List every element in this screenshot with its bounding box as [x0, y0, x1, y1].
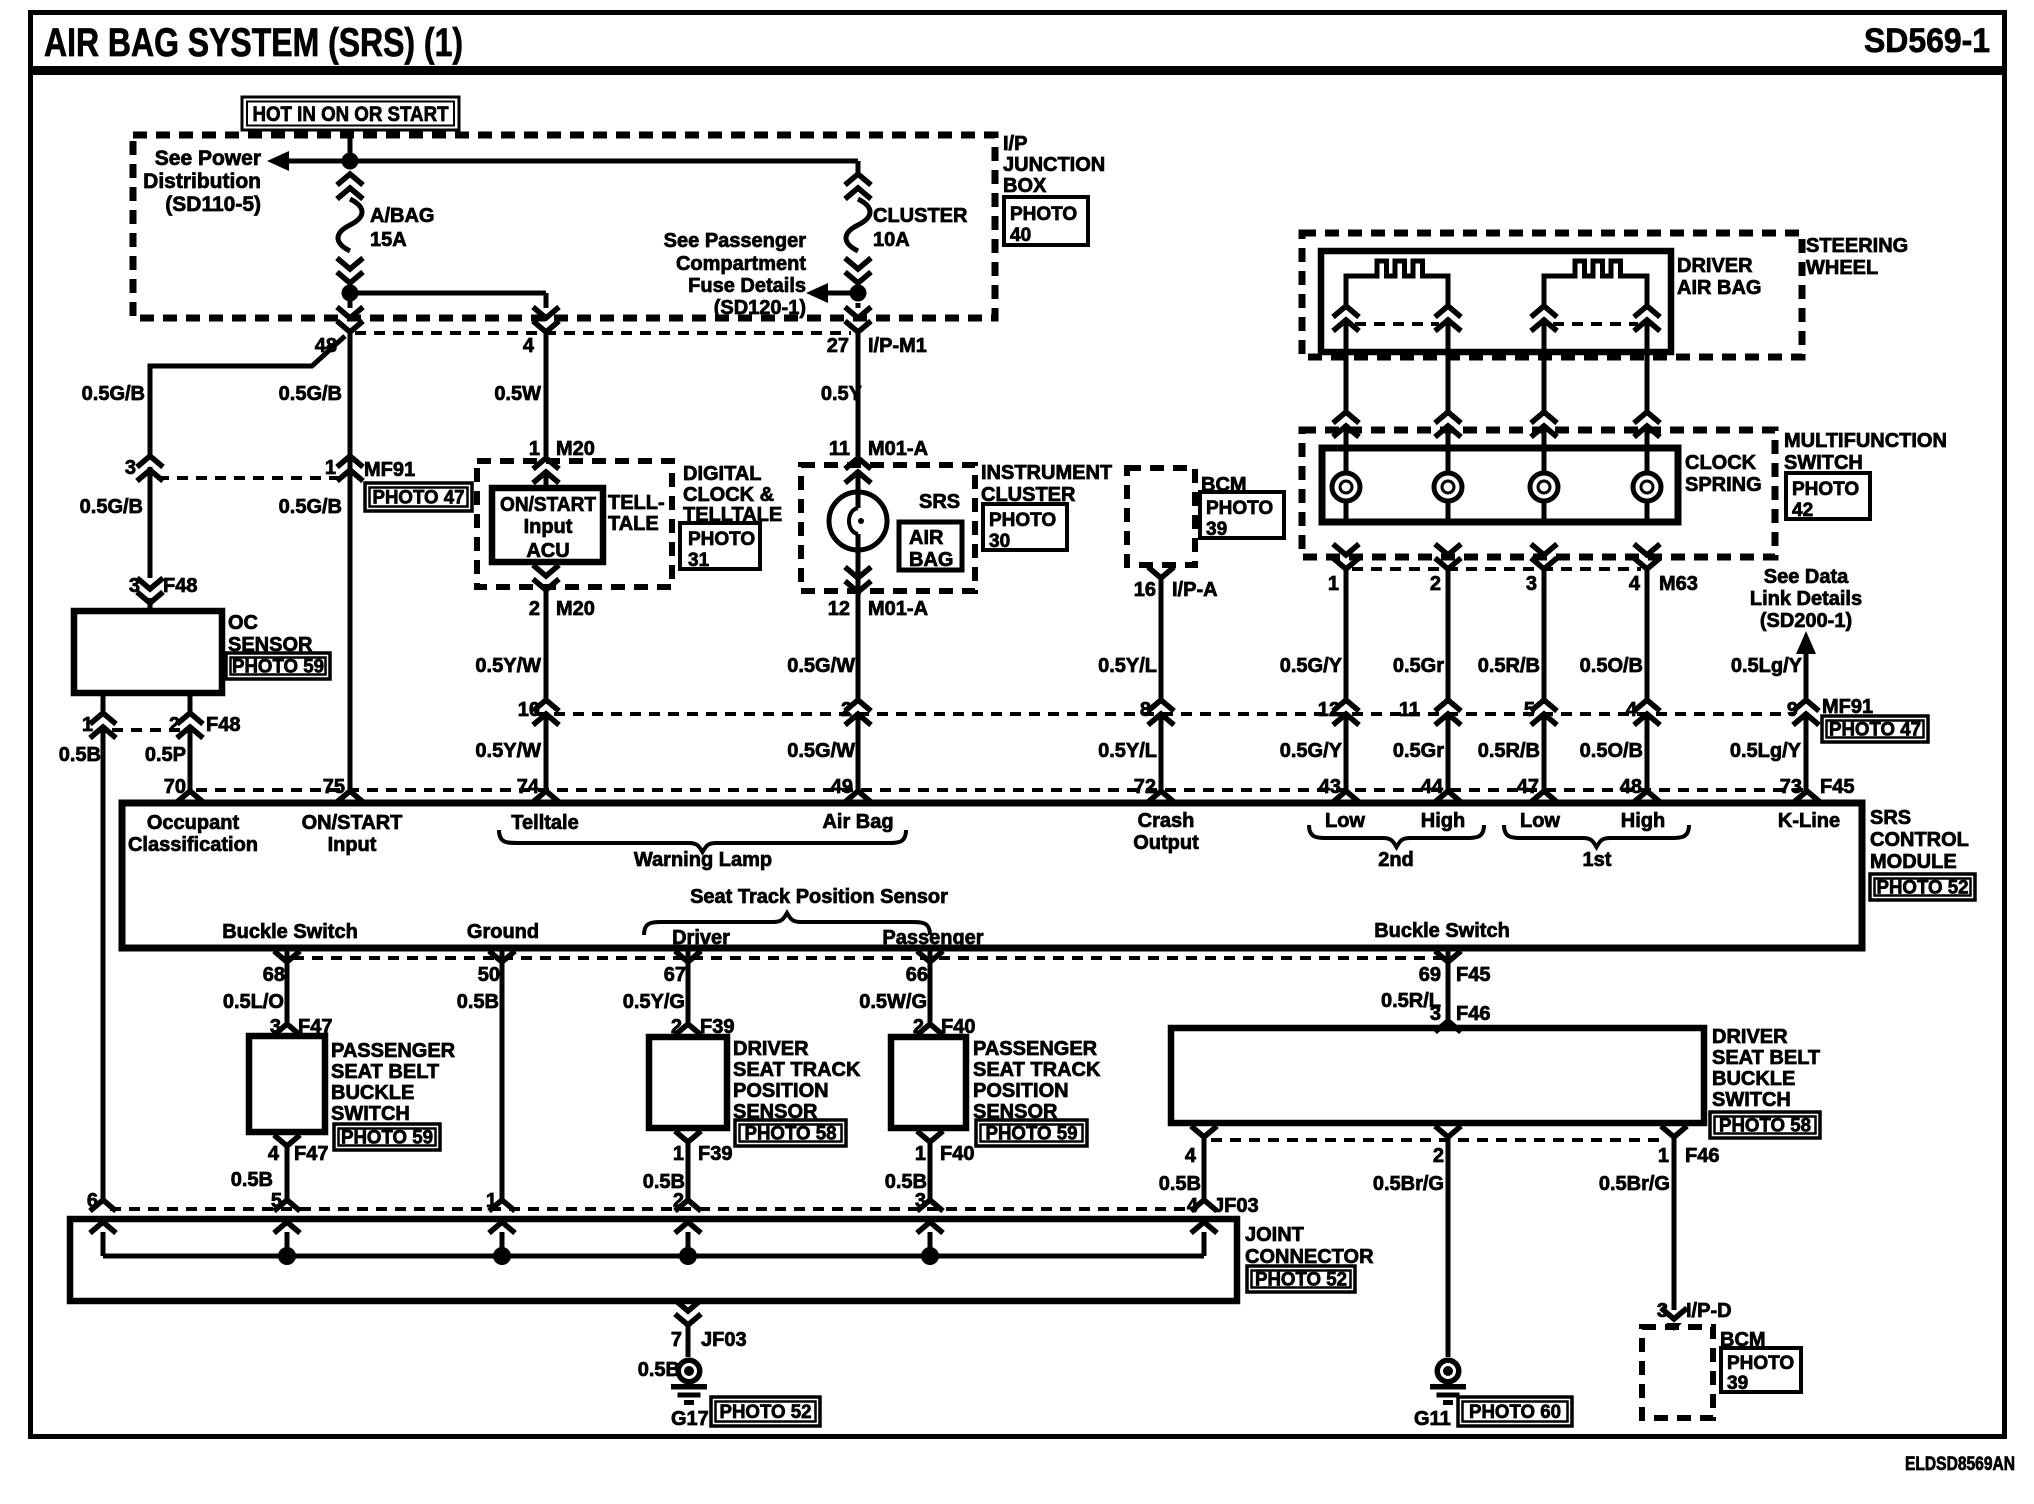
connector 4 F47: [268, 1135, 329, 1165]
svg-text:WHEEL: WHEEL: [1806, 257, 1878, 279]
photo 40 box: [1004, 197, 1088, 246]
wire 0.5G/B to pin75: [279, 496, 342, 518]
connector 2 F39: [671, 1016, 735, 1038]
svg-text:4: 4: [268, 1143, 280, 1165]
svg-text:0.5Lg/Y: 0.5Lg/Y: [1731, 655, 1803, 677]
svg-text:68: 68: [263, 964, 285, 986]
connector 5: [1524, 699, 1557, 725]
svg-text:Link Details: Link Details: [1750, 588, 1862, 610]
svg-text:9: 9: [1787, 699, 1798, 721]
svg-text:A/BAG: A/BAG: [370, 205, 434, 227]
connector 3 F48: [129, 575, 198, 611]
hot in on or start tag: [242, 97, 459, 161]
photo 30 box: [983, 504, 1067, 552]
wire 0.5Y/W lower: [475, 712, 546, 790]
svg-text:MODULE: MODULE: [1870, 851, 1957, 873]
wire 0.5P from OC pin2: [145, 727, 190, 790]
wire 0.5Br/G to BCM: [1599, 1137, 1674, 1310]
svg-text:CLOCK: CLOCK: [1685, 452, 1757, 474]
svg-text:3: 3: [1430, 1003, 1441, 1025]
svg-text:PHOTO 58: PHOTO 58: [745, 1124, 837, 1145]
joint junction dot 2: [679, 1247, 697, 1265]
svg-text:48: 48: [1620, 776, 1642, 798]
svg-text:1: 1: [529, 438, 540, 460]
svg-text:12: 12: [828, 598, 850, 620]
joint pin 6: [87, 1190, 116, 1256]
svg-text:M63: M63: [1659, 573, 1698, 595]
joint pin 3: [915, 1190, 943, 1256]
connector pin 4 buckle: [1185, 1126, 1217, 1167]
digital clock telltale box (dashed): [477, 461, 672, 587]
connector M63: [1328, 544, 1698, 595]
svg-text:PHOTO 52: PHOTO 52: [1255, 1270, 1347, 1291]
svg-text:30: 30: [989, 531, 1010, 552]
svg-text:AIR BAG SYSTEM (SRS) (1): AIR BAG SYSTEM (SRS) (1): [44, 21, 463, 65]
clock spring coil 2: [1434, 424, 1462, 522]
passenger seat belt buckle switch box: [249, 1036, 325, 1132]
connector 3 I/P-D: [1657, 1300, 1732, 1331]
svg-text:3: 3: [915, 1190, 926, 1212]
module label driver: [672, 927, 730, 949]
svg-text:F46: F46: [1685, 1145, 1719, 1167]
see power distribution arrow: [143, 147, 289, 216]
joint junction dot 1: [493, 1247, 511, 1265]
svg-text:M20: M20: [556, 598, 595, 620]
svg-text:ACU: ACU: [526, 540, 569, 562]
svg-text:STEERING: STEERING: [1806, 235, 1908, 257]
wire 0.5W vertical: [494, 332, 546, 456]
svg-text:11: 11: [829, 438, 850, 460]
module label telltale: [511, 812, 578, 834]
svg-text:1: 1: [82, 714, 93, 736]
label CLOCK SPRING: [1685, 452, 1762, 496]
svg-text:0.5G/B: 0.5G/B: [82, 383, 145, 405]
connector 12 M01-A: [828, 567, 928, 620]
svg-text:PHOTO 59: PHOTO 59: [341, 1128, 433, 1149]
label OC SENSOR: [228, 612, 313, 656]
junction node below A/BAG fuse: [342, 285, 359, 302]
wire power rail: [288, 161, 858, 174]
connector 1 M20: [529, 438, 595, 488]
svg-text:4: 4: [1629, 573, 1641, 595]
svg-text:ON/START: ON/START: [500, 494, 596, 516]
svg-text:4: 4: [1185, 1145, 1197, 1167]
svg-text:0.5G/B: 0.5G/B: [279, 496, 342, 518]
svg-text:Fuse Details: Fuse Details: [688, 275, 806, 297]
svg-text:0.5Y/W: 0.5Y/W: [475, 740, 541, 762]
svg-text:1: 1: [1658, 1145, 1669, 1167]
svg-text:Air Bag: Air Bag: [822, 811, 893, 833]
air bag squib 2: [1531, 261, 1660, 331]
svg-text:OC: OC: [228, 612, 258, 634]
svg-text:3: 3: [129, 575, 140, 597]
svg-text:0.5Lg/Y: 0.5Lg/Y: [1730, 740, 1802, 762]
clock spring box: [1322, 448, 1678, 522]
svg-text:INSTRUMENT: INSTRUMENT: [981, 462, 1112, 484]
wire 0.5R/B lower: [1478, 712, 1544, 790]
svg-text:K-Line: K-Line: [1778, 810, 1840, 832]
clock spring coil 3: [1530, 424, 1558, 522]
svg-text:0.5Br/G: 0.5Br/G: [1599, 1173, 1670, 1195]
air bag box: [899, 522, 962, 571]
svg-text:AIR: AIR: [909, 527, 944, 549]
ground G11: [1414, 1358, 1466, 1431]
svg-text:DRIVER: DRIVER: [1712, 1026, 1788, 1048]
svg-text:F39: F39: [698, 1143, 732, 1165]
label driver seat belt buckle switch: [1712, 1026, 1820, 1111]
svg-text:10A: 10A: [873, 229, 910, 251]
svg-text:0.5Gr: 0.5Gr: [1393, 740, 1444, 762]
wire 0.5B passenger sensor: [885, 1142, 930, 1200]
svg-text:0.5O/B: 0.5O/B: [1580, 655, 1643, 677]
joint pin 1: [486, 1190, 515, 1256]
photo 42 box: [1786, 473, 1870, 521]
module pin 68: [263, 951, 300, 986]
label passenger seat belt buckle switch: [331, 1040, 456, 1125]
svg-text:Input: Input: [328, 834, 377, 856]
svg-text:31: 31: [688, 550, 710, 571]
photo 47 box right: [1822, 716, 1928, 742]
wire 0.5Y vertical: [821, 332, 863, 456]
svg-text:F48: F48: [163, 575, 197, 597]
svg-text:49: 49: [831, 776, 853, 798]
svg-text:1st: 1st: [1583, 849, 1612, 871]
photo 52 box joint: [1247, 1266, 1355, 1292]
photo 52 box module: [1870, 874, 1975, 900]
svg-text:2: 2: [673, 1190, 684, 1212]
OC sensor box: [74, 611, 222, 693]
svg-text:0.5Gr: 0.5Gr: [1393, 655, 1444, 677]
svg-text:M20: M20: [556, 438, 595, 460]
svg-text:Compartment: Compartment: [676, 253, 806, 275]
svg-text:F40: F40: [940, 1143, 974, 1165]
wire 0.5Lg/Y lower: [1730, 712, 1806, 790]
svg-text:Crash: Crash: [1138, 810, 1195, 832]
svg-text:SEAT TRACK: SEAT TRACK: [973, 1059, 1101, 1081]
svg-text:PASSENGER: PASSENGER: [331, 1040, 456, 1062]
svg-text:SD569-1: SD569-1: [1864, 22, 1990, 60]
label STEERING WHEEL: [1806, 235, 1908, 279]
svg-text:0.5B: 0.5B: [231, 1169, 273, 1191]
connector pin 2 buckle: [1433, 1126, 1461, 1167]
wire 0.5G/W lower: [787, 712, 858, 790]
svg-text:0.5G/W: 0.5G/W: [787, 655, 855, 677]
connector 11 M01-A: [829, 438, 928, 508]
connector 10: [518, 699, 559, 725]
multifunction switch box (dashed): [1302, 430, 1775, 557]
dashed line buckle pins: [1211, 1138, 1667, 1142]
module label passenger: [882, 927, 983, 949]
svg-text:2nd: 2nd: [1378, 849, 1414, 871]
svg-text:0.5B: 0.5B: [638, 1359, 680, 1381]
I/P junction box (dashed): [133, 135, 995, 333]
svg-text:F45: F45: [1820, 776, 1854, 798]
svg-text:0.5G/B: 0.5G/B: [80, 496, 143, 518]
connector 3 F46: [1430, 1003, 1491, 1032]
page code SD569-1: [1864, 22, 1990, 60]
svg-text:12: 12: [1318, 699, 1340, 721]
junction node below CLUSTER fuse: [850, 285, 867, 302]
svg-text:Low: Low: [1520, 810, 1560, 832]
module pin 72: [1134, 776, 1174, 802]
see data link details arrow: [1750, 566, 1862, 700]
warning lamp brace: [499, 830, 906, 871]
joint pin 2: [673, 1190, 701, 1256]
joint pin 4: [1191, 1200, 1217, 1256]
svg-text:See Power: See Power: [155, 147, 261, 170]
label SRS CONTROL MODULE: [1870, 807, 1969, 873]
svg-text:69: 69: [1419, 964, 1441, 986]
module pin 69 F45: [1419, 951, 1491, 986]
wire 0.5G/B label left: [82, 383, 145, 405]
svg-text:PHOTO: PHOTO: [1206, 498, 1273, 519]
svg-text:I/P: I/P: [1003, 133, 1027, 155]
svg-text:0.5B: 0.5B: [59, 744, 101, 766]
svg-text:Buckle Switch: Buckle Switch: [222, 921, 358, 943]
see passenger fuse details arrow: [664, 230, 858, 319]
svg-text:PHOTO 60: PHOTO 60: [1469, 1402, 1561, 1423]
svg-text:SWITCH: SWITCH: [1784, 452, 1863, 474]
wire 0.5Y/L upper: [1098, 578, 1161, 700]
joint connector box: [70, 1219, 1237, 1301]
svg-text:27: 27: [827, 335, 849, 357]
svg-text:Seat Track Position Sensor: Seat Track Position Sensor: [690, 886, 948, 908]
connector 1 MF91: [325, 456, 415, 481]
svg-text:1: 1: [673, 1143, 684, 1165]
svg-text:0.5G/W: 0.5G/W: [787, 740, 855, 762]
label MULTIFUNCTION SWITCH: [1784, 430, 1947, 474]
svg-text:PHOTO: PHOTO: [1727, 1353, 1794, 1374]
svg-text:PASSENGER: PASSENGER: [973, 1038, 1098, 1060]
svg-text:2: 2: [1433, 1145, 1444, 1167]
wire 0.5Lg/Y upper: [1731, 655, 1803, 677]
wire 0.5B driver sensor: [643, 1142, 688, 1200]
svg-text:SWITCH: SWITCH: [331, 1103, 410, 1125]
wire 0.5R/L: [1381, 950, 1448, 1020]
svg-text:74: 74: [517, 776, 540, 798]
label DIGITAL CLOCK & TELLTALE: [683, 463, 782, 526]
label BCM bottom: [1720, 1329, 1766, 1351]
svg-text:MULTIFUNCTION: MULTIFUNCTION: [1784, 430, 1947, 452]
svg-text:SPRING: SPRING: [1685, 474, 1762, 496]
wire 0.5O/B upper: [1580, 569, 1647, 700]
svg-text:0.5Y/W: 0.5Y/W: [475, 655, 541, 677]
connector pin 27 I/P-M1: [827, 303, 927, 357]
photo 60 box G11: [1458, 1397, 1572, 1426]
svg-text:0.5O/B: 0.5O/B: [1580, 740, 1643, 762]
module label buckle switch right: [1374, 920, 1510, 942]
svg-text:SRS: SRS: [1870, 807, 1911, 829]
connector 3: [125, 456, 163, 481]
svg-text:Distribution: Distribution: [143, 170, 261, 193]
module label low high 2nd: [1309, 810, 1484, 871]
fuse CLUSTER 10A: [845, 174, 968, 283]
module label on/start input: [302, 812, 403, 856]
connector 7 JF03: [671, 1300, 747, 1351]
svg-text:CONTROL: CONTROL: [1870, 829, 1969, 851]
photo 39 box bottom: [1721, 1348, 1801, 1394]
module label ground: [467, 921, 539, 943]
wire squib2 low: [1542, 318, 1547, 412]
svg-text:PHOTO 59: PHOTO 59: [232, 657, 324, 678]
wire 0.5B to G17: [638, 1325, 688, 1381]
label SRS: [919, 491, 960, 513]
photo 31 box: [680, 523, 760, 571]
svg-text:PHOTO 47: PHOTO 47: [373, 488, 465, 509]
svg-text:0.5B: 0.5B: [457, 991, 499, 1013]
wire 0.5B jf03: [1159, 1137, 1204, 1200]
module pin 74: [517, 776, 559, 802]
svg-text:70: 70: [164, 776, 186, 798]
joint junction dot 5: [278, 1247, 296, 1265]
svg-text:7: 7: [671, 1329, 682, 1351]
module label buckle switch left: [222, 921, 358, 943]
svg-text:Warning Lamp: Warning Lamp: [634, 849, 772, 871]
svg-text:0.5B: 0.5B: [1159, 1173, 1201, 1195]
connector pin 48: [315, 293, 363, 357]
svg-text:2: 2: [529, 598, 540, 620]
wire 0.5Gr lower: [1393, 712, 1448, 790]
clock spring coil 1: [1332, 424, 1360, 522]
svg-text:BOX: BOX: [1003, 175, 1047, 197]
svg-text:0.5Y/G: 0.5Y/G: [623, 991, 685, 1013]
svg-text:4: 4: [1626, 699, 1638, 721]
photo 52 box G17: [711, 1397, 820, 1426]
wire pin48 vertical: [279, 332, 350, 790]
svg-text:1: 1: [1328, 573, 1339, 595]
svg-text:PHOTO: PHOTO: [688, 529, 755, 550]
svg-text:See Passenger: See Passenger: [664, 230, 807, 252]
connector 11: [1399, 699, 1461, 725]
wire 0.5Gr upper: [1393, 569, 1448, 700]
wire branch 48 to OC sensor: [150, 336, 345, 456]
module pin 75: [323, 776, 363, 802]
svg-text:0.5Y/L: 0.5Y/L: [1098, 655, 1157, 677]
svg-text:G11: G11: [1414, 1408, 1451, 1430]
svg-text:1: 1: [915, 1143, 926, 1165]
wire squib1 low: [1344, 318, 1349, 412]
svg-text:0.5G/Y: 0.5G/Y: [1280, 655, 1343, 677]
svg-text:1: 1: [325, 457, 336, 479]
svg-text:42: 42: [1792, 500, 1813, 521]
svg-text:0.5R/B: 0.5R/B: [1478, 740, 1540, 762]
module pin 66: [906, 951, 943, 986]
ground G17: [671, 1358, 709, 1431]
svg-text:High: High: [1421, 810, 1465, 832]
svg-text:0.5G/Y: 0.5G/Y: [1280, 740, 1343, 762]
svg-text:0.5R/B: 0.5R/B: [1478, 655, 1540, 677]
driver seat track position sensor box: [649, 1037, 727, 1128]
dashed connector line joint: [110, 1207, 1197, 1211]
wire fuse branch to pin 4: [350, 293, 546, 308]
svg-text:40: 40: [1010, 225, 1031, 246]
BCM box top (dashed): [1127, 468, 1195, 565]
svg-text:High: High: [1621, 810, 1665, 832]
svg-text:AIR BAG: AIR BAG: [1677, 277, 1761, 299]
module pin 43: [1319, 776, 1359, 802]
clock spring connectors top: [1333, 412, 1660, 437]
connector 8: [1140, 699, 1174, 725]
label DRIVER AIR BAG: [1677, 255, 1761, 299]
svg-text:PHOTO 47: PHOTO 47: [1829, 720, 1921, 741]
label BCM top: [1201, 474, 1247, 496]
wire 0.5O/B lower: [1580, 712, 1647, 790]
svg-text:(SD200-1): (SD200-1): [1760, 610, 1852, 632]
svg-text:0.5W/G: 0.5W/G: [859, 991, 927, 1013]
svg-text:DIGITAL: DIGITAL: [683, 463, 762, 485]
svg-text:BUCKLE: BUCKLE: [1712, 1068, 1795, 1090]
module label k-line: [1778, 810, 1840, 832]
joint pin 5: [271, 1190, 300, 1256]
connector 2 M20: [529, 565, 595, 620]
svg-text:JUNCTION: JUNCTION: [1003, 154, 1105, 176]
connector 2 cluster: [841, 699, 871, 725]
svg-text:0.5Br/G: 0.5Br/G: [1373, 1173, 1444, 1195]
photo 59 box OC: [226, 653, 330, 679]
module pin 73 F45: [1780, 776, 1855, 802]
svg-text:SEAT BELT: SEAT BELT: [1712, 1047, 1820, 1069]
connector 9 MF91: [1787, 696, 1873, 725]
svg-text:3: 3: [1657, 1300, 1668, 1322]
photo 59 box buckle: [334, 1124, 440, 1150]
svg-text:JF03: JF03: [1213, 1195, 1259, 1217]
svg-text:2: 2: [169, 714, 180, 736]
SRS control module box: [122, 803, 1862, 948]
connector 4: [1626, 699, 1660, 725]
wire 0.5Y/L lower: [1098, 712, 1161, 790]
connector 2 F40: [913, 1016, 976, 1038]
wire 0.5R/B upper: [1478, 569, 1544, 700]
svg-text:3: 3: [125, 457, 136, 479]
svg-text:BUCKLE: BUCKLE: [331, 1082, 414, 1104]
svg-text:8: 8: [1140, 699, 1151, 721]
svg-text:43: 43: [1319, 776, 1341, 798]
svg-text:F45: F45: [1456, 964, 1490, 986]
photo 58 box buckle: [1710, 1112, 1820, 1138]
dashed connector line module bottom: [293, 956, 1441, 960]
svg-text:PHOTO 58: PHOTO 58: [1719, 1116, 1811, 1137]
svg-text:F47: F47: [294, 1143, 328, 1165]
svg-text:Buckle Switch: Buckle Switch: [1374, 920, 1510, 942]
svg-text:72: 72: [1134, 776, 1156, 798]
svg-text:5: 5: [1524, 699, 1535, 721]
OC pin 2 connector F48: [169, 693, 241, 738]
title AIR BAG SYSTEM (SRS) (1): [44, 21, 463, 65]
seat track position sensor brace: [644, 886, 948, 935]
connector 12: [1318, 699, 1359, 725]
dashed connector line MF91: [158, 476, 338, 480]
module label low high 1st: [1504, 810, 1689, 871]
svg-text:I/P-D: I/P-D: [1686, 1300, 1732, 1322]
svg-text:3: 3: [1526, 573, 1537, 595]
svg-text:M01-A: M01-A: [868, 598, 928, 620]
wire 0.5L/O: [223, 950, 287, 1022]
svg-text:I/P-A: I/P-A: [1172, 579, 1218, 601]
photo 47 box: [365, 483, 472, 511]
fuse A/BAG 15A: [337, 174, 434, 283]
wire 0.5Y/G: [623, 950, 688, 1022]
wire 0.5G/Y lower: [1280, 712, 1346, 790]
svg-text:JF03: JF03: [701, 1329, 747, 1351]
wire 0.5G/B to OC: [80, 467, 150, 578]
svg-text:HOT IN ON OR START: HOT IN ON OR START: [253, 103, 449, 126]
module pin 44: [1421, 776, 1461, 802]
svg-text:Output: Output: [1133, 832, 1199, 854]
svg-text:MF91: MF91: [364, 459, 415, 481]
svg-text:SWITCH: SWITCH: [1712, 1089, 1791, 1111]
svg-text:Occupant: Occupant: [147, 812, 240, 834]
svg-text:DRIVER: DRIVER: [733, 1038, 809, 1060]
